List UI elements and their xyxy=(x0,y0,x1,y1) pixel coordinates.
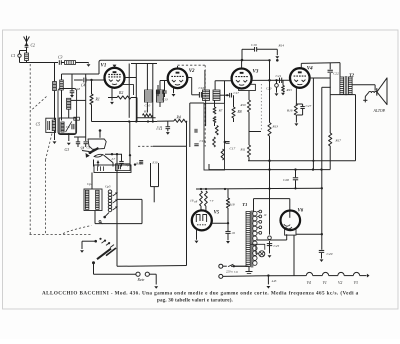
svg-text:E10: E10 xyxy=(152,161,158,165)
svg-text:R14: R14 xyxy=(278,44,285,48)
svg-text:16: 16 xyxy=(190,199,194,203)
svg-text:C27: C27 xyxy=(306,104,312,108)
svg-text:ALLOCCHIO BACCHINI - Mod. 436.: ALLOCCHIO BACCHINI - Mod. 436. Una gamma… xyxy=(42,290,359,297)
svg-text:C17: C17 xyxy=(234,91,240,95)
svg-text:V5: V5 xyxy=(214,210,220,215)
svg-text:R13: R13 xyxy=(272,125,279,129)
svg-text:pag. 30 tabelle valori e tarat: pag. 30 tabelle valori e tarature). xyxy=(157,296,234,303)
svg-text:C16: C16 xyxy=(199,86,205,90)
svg-text:V3: V3 xyxy=(253,70,259,75)
svg-text:T1: T1 xyxy=(242,202,247,207)
svg-text:R17: R17 xyxy=(335,139,342,143)
svg-text:V4: V4 xyxy=(307,281,311,285)
svg-text:V1: V1 xyxy=(323,281,327,285)
svg-text:V1: V1 xyxy=(101,64,107,69)
svg-text:R8: R8 xyxy=(237,110,242,114)
svg-text:13: 13 xyxy=(81,147,85,151)
svg-text:C14: C14 xyxy=(156,127,162,131)
svg-text:C15: C15 xyxy=(200,139,206,143)
svg-text:C1: C1 xyxy=(11,54,16,58)
svg-text:C20: C20 xyxy=(266,87,272,91)
svg-text:R4: R4 xyxy=(176,115,181,119)
svg-text:c8: c8 xyxy=(194,199,197,203)
svg-text:V2: V2 xyxy=(189,69,195,74)
svg-text:R1: R1 xyxy=(95,98,100,102)
svg-text:C22: C22 xyxy=(333,72,339,76)
svg-text:V2: V2 xyxy=(338,281,342,285)
svg-text:ALTOP.: ALTOP. xyxy=(373,109,386,113)
svg-text:V4: V4 xyxy=(307,66,313,71)
svg-text:Cp4: Cp4 xyxy=(87,182,93,186)
svg-text:220 v. c.a.: 220 v. c.a. xyxy=(226,269,238,273)
svg-text:C4: C4 xyxy=(81,84,85,88)
svg-text:R11: R11 xyxy=(240,148,246,152)
svg-text:C17: C17 xyxy=(230,147,236,151)
svg-text:V3: V3 xyxy=(354,281,358,285)
svg-text:C19: C19 xyxy=(251,43,257,47)
svg-text:C28: C28 xyxy=(283,178,289,182)
svg-text:Cp5: Cp5 xyxy=(105,185,111,189)
svg-text:C6: C6 xyxy=(66,125,70,129)
svg-text:R15: R15 xyxy=(286,88,293,92)
svg-text:C3: C3 xyxy=(58,56,63,60)
svg-text:R7: R7 xyxy=(218,109,223,113)
svg-text:R16: R16 xyxy=(286,109,293,113)
svg-text:C13: C13 xyxy=(162,98,168,102)
svg-text:Cp6: Cp6 xyxy=(126,163,132,167)
svg-text:C2: C2 xyxy=(31,44,36,48)
svg-text:V6: V6 xyxy=(298,209,304,214)
svg-text:R2: R2 xyxy=(118,91,123,95)
svg-text:C29: C29 xyxy=(327,252,333,256)
svg-text:L7: L7 xyxy=(111,157,116,161)
svg-text:c6: c6 xyxy=(232,231,235,235)
svg-text:445: 445 xyxy=(272,279,277,283)
svg-text:G3: G3 xyxy=(65,148,70,152)
svg-text:+7: +7 xyxy=(209,199,213,203)
svg-text:C25: C25 xyxy=(274,244,280,248)
svg-text:R10: R10 xyxy=(135,162,142,166)
svg-text:C21: C21 xyxy=(276,74,282,78)
svg-text:C5: C5 xyxy=(36,123,41,127)
svg-text:R10: R10 xyxy=(240,103,247,107)
svg-text:Rete: Rete xyxy=(137,278,145,282)
svg-text:R18: R18 xyxy=(228,203,235,207)
